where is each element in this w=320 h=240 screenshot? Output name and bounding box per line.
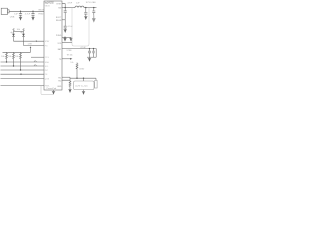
resistor R1 (LED pullup) <box>13 28 15 31</box>
wire pullup rail <box>3 51 31 53</box>
capacitor C1 <box>19 11 22 17</box>
resistor R7 <box>69 80 71 88</box>
ground <box>19 17 22 20</box>
wire VBUS <box>9 10 44 12</box>
node SW junction <box>65 7 66 8</box>
cell terminal right <box>95 78 97 88</box>
capacitor C6 <box>92 8 95 16</box>
ground <box>31 17 34 20</box>
wire SYS rail <box>84 7 97 9</box>
wire PGND <box>62 36 71 38</box>
node BAT-C8 <box>93 48 94 49</box>
supply 1.8V <box>30 46 32 52</box>
wire CE <box>1 73 45 75</box>
resistor R3 <box>6 52 8 62</box>
ground under IC <box>52 90 55 95</box>
node INT junction <box>20 69 21 70</box>
node VBUS-C1 <box>20 11 21 12</box>
node BAT-C7 <box>89 48 90 49</box>
capacitor C5 <box>84 8 87 17</box>
wire SW <box>62 7 75 9</box>
ground <box>84 17 87 20</box>
junction bump SDA <box>34 61 36 62</box>
svg-text:10k: 10k <box>1 56 4 58</box>
resistor R6 (thermistor divider) <box>76 63 78 79</box>
capacitor C2 <box>31 11 34 17</box>
svg-text:REGN: REGN <box>56 20 62 22</box>
system block outline <box>72 8 89 46</box>
wire INT <box>1 69 45 71</box>
svg-text:PGND: PGND <box>56 35 62 37</box>
net arrow STAT <box>35 40 37 42</box>
resistor R4 <box>13 52 15 66</box>
wire SCL <box>1 65 45 67</box>
svg-text:1.8V: 1.8V <box>28 43 33 45</box>
svg-text:1uF: 1uF <box>14 13 18 15</box>
capacitor C8 <box>92 49 95 58</box>
svg-text:47nF: 47nF <box>67 2 72 4</box>
op-amp U1 (charger IC bq24192) <box>44 1 62 90</box>
wire BTST <box>62 4 65 8</box>
node SDA junction <box>6 61 7 62</box>
wire SYS pin <box>62 42 72 44</box>
svg-text:OTG: OTG <box>45 57 50 59</box>
svg-text:PMID: PMID <box>38 14 44 16</box>
node CE junction <box>20 74 21 75</box>
wire LED rail <box>14 30 24 32</box>
svg-text:VBUS: VBUS <box>38 10 44 12</box>
wire REGN <box>62 19 65 21</box>
wire TS1 <box>62 76 70 78</box>
node battery-R6 <box>76 78 77 79</box>
svg-text:VBUS: VBUS <box>45 6 51 8</box>
svg-text:10k: 10k <box>70 62 73 64</box>
wire PG <box>24 45 45 47</box>
ground <box>64 30 67 33</box>
node SYS-C5 <box>85 7 86 8</box>
wire QON <box>1 77 45 79</box>
node VBUS-C2 <box>32 11 33 12</box>
connector J1 (USB input) <box>1 8 9 14</box>
svg-text:USB: USB <box>10 16 15 18</box>
thermistor RT in pack <box>83 78 85 81</box>
svg-text:QON: QON <box>45 78 50 80</box>
svg-text:4.7uF: 4.7uF <box>25 14 31 16</box>
svg-text:1uF: 1uF <box>76 2 80 4</box>
ground battery <box>82 90 85 95</box>
svg-text:10k: 10k <box>8 56 11 58</box>
ground <box>63 37 66 41</box>
svg-text:4.7uF: 4.7uF <box>80 47 86 49</box>
svg-text:103AT: 103AT <box>79 67 85 70</box>
node PGND junction <box>64 37 65 38</box>
svg-text:SW: SW <box>58 8 61 10</box>
svg-text:10k: 10k <box>17 29 21 31</box>
wire STAT <box>14 40 45 42</box>
resistor R5 <box>20 52 22 70</box>
wire TS net <box>62 58 70 60</box>
node SCL junction <box>13 65 14 66</box>
svg-text:10k: 10k <box>15 56 18 58</box>
battery BT1 <box>74 81 95 90</box>
svg-text:PSEL: PSEL <box>45 86 50 88</box>
wire TS2 <box>62 77 70 80</box>
svg-text:bq24192: bq24192 <box>45 2 55 4</box>
wire BAT <box>62 49 96 58</box>
svg-text:SCL: SCL <box>45 66 49 68</box>
wire PSEL to GND (light) <box>41 86 53 95</box>
svg-text:BOOT: BOOT <box>56 17 62 19</box>
svg-text:4.2V Li-Ion: 4.2V Li-Ion <box>75 86 88 88</box>
wire battery top <box>70 77 96 79</box>
ground <box>69 37 72 41</box>
svg-text:TS1: TS1 <box>58 77 61 79</box>
LED D1 <box>11 31 15 41</box>
capacitor C7 <box>88 49 91 58</box>
LED D2 <box>21 31 25 45</box>
svg-text:GND: GND <box>57 86 62 88</box>
svg-text:VTSB: VTSB <box>67 50 73 52</box>
svg-text:TR 10k: TR 10k <box>67 55 73 57</box>
wire SDA <box>1 61 45 63</box>
svg-text:SYS LOAD: SYS LOAD <box>86 1 97 4</box>
node SYS-C6 <box>93 7 94 8</box>
net arrow TS <box>70 58 72 60</box>
ground <box>88 57 91 62</box>
svg-text:TS2: TS2 <box>58 80 61 82</box>
wire BAT return <box>87 56 96 58</box>
wire PSEL <box>1 85 45 87</box>
capacitor C3 (bootstrap) <box>64 8 67 20</box>
inductor L1 <box>75 6 84 8</box>
ground <box>68 89 71 93</box>
svg-text:4.7uF: 4.7uF <box>67 26 73 28</box>
resistor R2 (LED pullup) <box>23 28 25 31</box>
capacitor C4 (REGN 4.7uF) <box>64 20 67 30</box>
load arrow SYS <box>93 15 96 21</box>
junction bump SCL <box>34 65 36 66</box>
node battery-cell <box>83 78 84 79</box>
wire OTG <box>31 56 44 58</box>
svg-text:BTST: BTST <box>56 4 62 6</box>
